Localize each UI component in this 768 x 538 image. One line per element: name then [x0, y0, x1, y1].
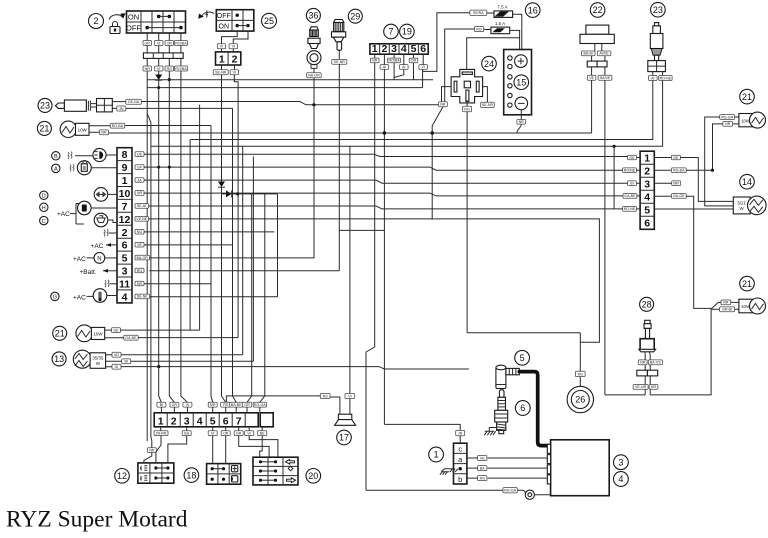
svg-text:GE: GE — [673, 156, 679, 160]
labels 23 left — [112, 99, 141, 111]
junction dot — [168, 71, 171, 81]
svg-text:2N-RR: 2N-RR — [156, 432, 167, 436]
svg-text:GA-GE: GA-GE — [673, 194, 685, 198]
wire labels right of left strip — [135, 152, 150, 299]
right strip row2 to rear lamp — [686, 169, 712, 171]
svg-text:23: 23 — [653, 5, 663, 15]
svg-text:b: b — [458, 475, 462, 484]
circled 25 — [262, 13, 277, 28]
bottom connector strip — [154, 413, 273, 428]
diode D2 — [218, 182, 225, 188]
CDI bolt — [520, 490, 551, 499]
svg-text:16: 16 — [528, 5, 538, 15]
starter switch block 18 — [207, 464, 241, 485]
right labels of right strip — [654, 155, 714, 209]
svg-text:29: 29 — [350, 11, 360, 21]
svg-text:GF: GF — [137, 165, 143, 169]
circled 18 — [184, 468, 199, 483]
svg-text:H: H — [42, 206, 46, 212]
top bus 2 — [147, 86, 422, 89]
svg-text:RG: RG — [167, 67, 173, 71]
row9 to right strip 2 — [144, 166, 623, 171]
wire RO-NE trunk to right — [151, 145, 623, 209]
circled 21 left top — [37, 121, 51, 135]
svg-text:5: 5 — [411, 43, 417, 55]
circled 21 left bottom — [53, 326, 67, 340]
svg-text:5: 5 — [520, 353, 525, 363]
svg-text:18: 18 — [186, 470, 196, 480]
bullet connector 23 left — [55, 99, 112, 112]
vertical D lower — [181, 120, 188, 402]
svg-text:RO-NE: RO-NE — [624, 207, 636, 211]
fuse F1 7.5A — [494, 5, 513, 18]
svg-text:3: 3 — [122, 266, 128, 278]
svg-text:25: 25 — [264, 16, 274, 26]
svg-text:VI: VI — [247, 432, 250, 436]
svg-text:RYZ Super Motard: RYZ Super Motard — [6, 507, 188, 533]
svg-text:2: 2 — [171, 415, 177, 427]
svg-text:+AC: +AC — [57, 211, 70, 218]
svg-text:26: 26 — [575, 395, 585, 405]
svg-text:1: 1 — [434, 450, 439, 460]
svg-text:2: 2 — [232, 54, 238, 66]
right lamp top NR wire — [711, 124, 723, 172]
svg-text:VI: VI — [233, 71, 236, 75]
svg-text:12: 12 — [117, 471, 127, 481]
svg-text:RG-BA: RG-BA — [673, 169, 685, 173]
circled 5 — [515, 350, 530, 365]
svg-text:VD: VD — [114, 353, 119, 357]
svg-text:BA: BA — [480, 466, 485, 470]
svg-text:VI: VI — [211, 432, 214, 436]
svg-text:7: 7 — [236, 415, 242, 427]
svg-text:BA-BE: BA-BE — [231, 403, 242, 407]
svg-text:ON: ON — [219, 24, 230, 31]
tail lamp GE wire — [121, 329, 200, 331]
svg-text:1: 1 — [158, 415, 164, 427]
wire relay NR trunk down — [199, 105, 201, 330]
svg-text:SE/RA: SE/RA — [473, 11, 484, 15]
svg-text:2: 2 — [644, 166, 650, 178]
circled 23 left — [38, 98, 52, 112]
horn RS wire — [226, 396, 320, 402]
svg-text:NR: NR — [137, 191, 143, 195]
svg-text:12: 12 — [119, 214, 131, 226]
svg-text:7: 7 — [388, 27, 393, 37]
svg-text:10: 10 — [119, 188, 131, 200]
spark plug 6 — [495, 390, 508, 434]
front position lamp right — [739, 112, 766, 128]
circled 28 — [640, 297, 654, 311]
headlamp 13 — [73, 350, 105, 368]
svg-text:4: 4 — [644, 192, 650, 204]
svg-text:RO/NE: RO/NE — [624, 169, 636, 173]
svg-text:3: 3 — [184, 415, 190, 427]
svg-text:BA: BA — [184, 432, 189, 436]
svg-text:4: 4 — [618, 474, 623, 484]
key switch stems — [147, 33, 181, 41]
svg-text:SE-NR: SE-NR — [334, 60, 346, 64]
svg-text:6: 6 — [420, 43, 426, 55]
HT lead thick wire — [519, 372, 550, 446]
svg-text:10W: 10W — [78, 127, 88, 132]
circled A — [52, 164, 60, 172]
svg-text:4: 4 — [122, 291, 128, 303]
svg-text:NR: NR — [145, 67, 151, 71]
svg-text:BI: BI — [124, 360, 127, 364]
svg-text:RG: RG — [476, 27, 482, 31]
labels 28 — [638, 354, 662, 365]
svg-text:GA-BE: GA-BE — [624, 194, 636, 198]
ignition coil HT 28 — [639, 320, 656, 354]
fuse F2 1.5A — [491, 21, 510, 34]
svg-text:BI: BI — [630, 182, 633, 186]
headlamp GI wire — [121, 365, 384, 369]
label RG-GA at CDI — [366, 488, 525, 494]
svg-text:VI: VI — [348, 394, 351, 398]
svg-text:VE: VE — [480, 456, 485, 460]
indicator row9 — [70, 161, 117, 175]
turn signal switch block 20 — [253, 457, 298, 485]
svg-text:BA-BI: BA-BI — [584, 52, 593, 56]
circled 3 — [614, 455, 629, 470]
top bus 1 — [147, 79, 433, 81]
svg-text:SE-NR: SE-NR — [215, 71, 227, 75]
horn 17 — [330, 397, 356, 425]
svg-text:+Batt.: +Batt. — [80, 269, 97, 276]
circled 4 — [614, 472, 629, 487]
svg-text:ON: ON — [128, 13, 139, 22]
circled 23 right — [651, 2, 666, 17]
svg-text:MR: MR — [210, 403, 216, 407]
svg-text:GR: GR — [145, 41, 151, 45]
circled 7 — [384, 24, 399, 39]
svg-text:8: 8 — [122, 149, 128, 161]
circled 12 — [115, 469, 130, 484]
svg-text:6: 6 — [520, 403, 525, 413]
wire 22 — [592, 80, 605, 395]
svg-text:RO-BA: RO-BA — [112, 124, 124, 128]
circled 22 — [590, 3, 605, 18]
svg-text:RG-GA: RG-GA — [254, 403, 266, 407]
svg-text:OFF: OFF — [126, 24, 141, 33]
svg-text:AI/VE: AI/VE — [599, 52, 609, 56]
svg-text:20: 20 — [308, 471, 318, 481]
svg-text:21: 21 — [39, 124, 49, 134]
circled 36 — [306, 8, 320, 22]
circled 21 right top — [740, 89, 755, 104]
circled 6 — [515, 401, 530, 416]
right strip row4 to rear lamp GR-BI — [686, 196, 721, 308]
svg-text:GR: GR — [172, 403, 178, 407]
labels above bottom strip — [157, 402, 267, 413]
svg-text:NR: NR — [651, 385, 657, 389]
svg-text:GE: GE — [113, 328, 119, 332]
wire — [147, 71, 181, 441]
horn labels — [320, 394, 354, 399]
labels lamp right bottom — [720, 300, 739, 312]
svg-text:VE: VE — [137, 243, 142, 247]
svg-text:36: 36 — [308, 11, 318, 21]
svg-text:GR-BI: GR-BI — [722, 308, 732, 312]
headlamp VD wire — [121, 146, 243, 354]
svg-text:BA-OR: BA-OR — [137, 256, 149, 260]
svg-text:1: 1 — [122, 175, 128, 187]
svg-text:4: 4 — [205, 12, 208, 18]
svg-text:2: 2 — [93, 16, 98, 26]
svg-text:10W: 10W — [93, 331, 103, 336]
labels below bottom strip — [154, 427, 267, 436]
svg-text:11: 11 — [119, 279, 130, 291]
turn arrow for key switch — [109, 13, 126, 19]
svg-text:UE: UE — [137, 152, 143, 156]
vertical B lower — [159, 88, 162, 402]
svg-text:28: 28 — [642, 300, 652, 310]
circled 24 — [482, 56, 497, 71]
wire lamp RO-BA to diode column — [125, 126, 213, 403]
connector 1 c-a-b — [454, 443, 467, 484]
labels lamp right top — [720, 115, 739, 127]
svg-text:7: 7 — [122, 201, 128, 213]
circled G — [51, 292, 59, 300]
diode D3 — [222, 190, 278, 402]
svg-text:NR: NR — [149, 448, 155, 452]
svg-text:NR: NR — [723, 301, 729, 305]
connector strip 7/19 — [370, 43, 428, 55]
svg-text:6: 6 — [122, 240, 128, 252]
circled 16 — [525, 3, 540, 18]
svg-text:NR: NR — [640, 361, 646, 365]
labels under strip 7/19 — [370, 54, 427, 69]
wire 23 right — [190, 81, 663, 147]
svg-text:NA-OR: NA-OR — [308, 74, 320, 78]
CDI unit 3/4 — [547, 440, 609, 496]
svg-text:OE-NA: OE-NA — [128, 100, 140, 104]
svg-text:OR: OR — [223, 432, 229, 436]
svg-text:NA/VE: NA/VE — [600, 76, 611, 80]
svg-text:7.5 A: 7.5 A — [497, 5, 507, 10]
rear position lamp right — [739, 298, 766, 314]
starter relay 23 — [648, 23, 666, 72]
svg-text:RO/BA: RO/BA — [175, 67, 187, 71]
svg-text:19: 19 — [402, 27, 412, 37]
row4 wire — [150, 194, 278, 297]
wire — [338, 64, 340, 271]
svg-text:VI: VI — [232, 45, 235, 49]
wire — [144, 78, 314, 258]
labels headlamp — [106, 352, 131, 369]
svg-text:OR: OR — [244, 403, 250, 407]
svg-text:VI: VI — [421, 65, 424, 69]
circled 14 — [740, 174, 755, 189]
svg-text:15: 15 — [516, 77, 526, 87]
label SE-NR — [332, 50, 347, 64]
+Batt row3 — [80, 269, 118, 276]
svg-text:+AC: +AC — [73, 256, 86, 263]
row3 wire — [150, 270, 340, 272]
row12 long wire — [149, 219, 600, 342]
svg-text:5: 5 — [122, 253, 128, 265]
svg-text:NR: NR — [137, 282, 143, 286]
sensor29 trunk — [339, 229, 384, 231]
svg-text:3: 3 — [391, 43, 397, 55]
svg-text:1: 1 — [219, 54, 225, 66]
svg-text:4: 4 — [401, 43, 407, 55]
svg-text:VI: VI — [186, 403, 189, 407]
svg-text:3: 3 — [644, 179, 650, 191]
labels tail lamp — [105, 328, 138, 340]
position lamp 21 left — [60, 121, 89, 137]
keyswitch NR jog — [147, 113, 152, 447]
ground at spark plug — [484, 428, 496, 436]
label NA-OR — [307, 73, 322, 78]
svg-text:4: 4 — [197, 415, 203, 427]
svg-text:BI: BI — [160, 403, 163, 407]
svg-text:21: 21 — [742, 279, 752, 289]
circled 17 — [337, 430, 352, 445]
labels 28 lower — [633, 376, 658, 395]
svg-text:RO/BA: RO/BA — [175, 41, 187, 45]
svg-text:RG: RG — [464, 108, 470, 112]
wire fuse to battery — [467, 14, 522, 70]
circled 19 — [400, 24, 415, 39]
svg-text:GR: GR — [236, 432, 242, 436]
svg-text:5: 5 — [210, 415, 216, 427]
svg-text:NR: NR — [101, 131, 107, 135]
light switch SW25 table — [216, 10, 254, 31]
svg-text:GE: GE — [629, 156, 635, 160]
diode D1 on VI wire — [155, 71, 162, 88]
svg-text:JN: JN — [458, 432, 463, 436]
main bus NR tail-battery-rectifier — [109, 131, 592, 134]
svg-text:+AC: +AC — [73, 294, 86, 301]
svg-text:6: 6 — [644, 218, 650, 230]
key lock icon — [110, 22, 120, 34]
fuel icon row12 group — [57, 201, 117, 227]
headlamp BI wire — [131, 157, 254, 362]
svg-text:35/35: 35/35 — [92, 355, 104, 360]
svg-text:VI: VI — [157, 41, 160, 45]
svg-text:RS: RS — [223, 403, 229, 407]
svg-text:VE-NR: VE-NR — [635, 385, 647, 389]
circled 2 — [89, 14, 104, 29]
svg-text:RO/BA: RO/BA — [389, 59, 401, 63]
circled 21 right bottom — [740, 276, 755, 291]
wire — [222, 75, 239, 403]
fuse2 trunk down — [384, 368, 469, 370]
relay socket 24 — [451, 69, 483, 103]
row1 to right strip 3 — [144, 180, 628, 183]
row6 wire — [144, 244, 233, 246]
circled 13 — [52, 352, 66, 366]
svg-text:D: D — [42, 194, 46, 200]
svg-text:2: 2 — [122, 227, 128, 239]
svg-text:AI: AI — [402, 65, 405, 69]
wire 23L OE-NA to relay NR — [141, 102, 438, 107]
svg-text:VE: VE — [589, 76, 594, 80]
tail lamp 21 — [76, 325, 105, 342]
+AC N row5 — [73, 253, 117, 264]
svg-text:5: 5 — [644, 205, 650, 217]
row8 to right strip 1 — [144, 154, 628, 156]
svg-text:RO-NE: RO-NE — [660, 76, 672, 80]
svg-text:SE-AT: SE-AT — [137, 204, 148, 208]
circled 29 — [348, 9, 362, 23]
svg-text:AI: AI — [383, 65, 386, 69]
wire 23L JN — [126, 108, 236, 402]
svg-text:MR: MR — [673, 182, 679, 186]
svg-text:SE-NR: SE-NR — [482, 103, 494, 107]
svg-text:NR: NR — [725, 122, 731, 126]
svg-text:VE-NE: VE-NE — [136, 217, 148, 221]
svg-text:14: 14 — [742, 177, 752, 187]
svg-text:NG: NG — [137, 230, 143, 234]
wire labels row2 under key switch — [143, 58, 188, 71]
label SE/RA — [470, 10, 494, 15]
right lamp top RG-GR wire — [705, 117, 734, 206]
svg-text:21: 21 — [55, 329, 65, 339]
tail lamp GA-BE wire — [138, 337, 238, 339]
svg-text:RS: RS — [323, 394, 329, 398]
svg-text:17: 17 — [339, 433, 349, 443]
rear lamp GR-BI loop to coil — [605, 309, 720, 395]
strip cells to block 18 — [168, 431, 226, 464]
labels connector 1 — [467, 456, 549, 481]
spark plug cap 5 — [496, 365, 519, 388]
wire AI trunk — [189, 140, 191, 331]
labels SE-NR VI — [213, 65, 238, 75]
svg-text:VI: VI — [220, 45, 223, 49]
temperature sensor 29 — [332, 20, 346, 51]
svg-text:c: c — [458, 445, 462, 454]
right strip row5 to lamp14 — [654, 208, 733, 210]
svg-text:VI: VI — [157, 67, 160, 71]
left labels of right strip — [623, 155, 641, 211]
svg-text:NR: NR — [440, 103, 446, 107]
high beam indicator row8 — [75, 148, 117, 161]
svg-text:RG: RG — [480, 476, 486, 480]
stop/tail lamp 14 — [733, 196, 766, 215]
svg-text:SE-NE: SE-NE — [137, 295, 149, 299]
row10 to right strip 4 — [144, 193, 623, 196]
svg-text:JA: JA — [137, 178, 142, 182]
svg-text:A: A — [54, 167, 58, 173]
+AC row6 — [91, 243, 117, 250]
circled B — [52, 152, 60, 160]
svg-text:RG-GR: RG-GR — [721, 115, 733, 119]
label NR lower — [147, 436, 160, 453]
svg-text:AI: AI — [651, 76, 654, 80]
labels lamp 21 left — [89, 123, 125, 134]
connector pair 28 — [637, 365, 658, 376]
svg-text:22: 22 — [593, 5, 603, 15]
circled D — [40, 191, 48, 199]
coil row8 — [68, 152, 72, 160]
wire fuse feeds left — [423, 13, 475, 220]
circled 1 — [429, 447, 444, 462]
ground at connector 1 — [440, 469, 458, 475]
svg-text:C: C — [42, 219, 46, 225]
right connector strip 6-pin — [640, 151, 654, 229]
label RG fuse2 — [474, 27, 491, 32]
svg-text:RG: RG — [137, 269, 143, 273]
svg-text:BE: BE — [260, 432, 265, 436]
coil row11 — [105, 280, 117, 288]
svg-text:9: 9 — [122, 162, 128, 174]
svg-text:BA-VS: BA-VS — [650, 361, 661, 365]
row11 wire — [144, 283, 211, 285]
+AC temp row4 — [73, 289, 117, 303]
